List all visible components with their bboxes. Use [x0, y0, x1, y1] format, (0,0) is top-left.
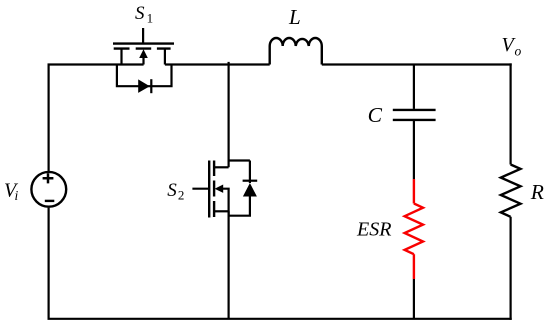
voltage source Vi [31, 172, 66, 207]
gate bar [113, 42, 174, 44]
diode D1 loop (body diode of S1) [117, 65, 172, 87]
minus sign [45, 200, 55, 202]
svg-text:R: R [530, 180, 544, 204]
gate lead [192, 188, 209, 190]
wire rail S1-to-inductor [165, 63, 270, 65]
wire left vertical bottom [47, 208, 49, 319]
svg-text:S: S [135, 3, 145, 24]
wire left vertical top [47, 65, 49, 172]
diode D2 triangle [243, 183, 257, 197]
wire ESR-to-bottom black [413, 279, 415, 319]
svg-text:C: C [368, 103, 383, 127]
drain connection [120, 49, 122, 65]
wire S2 branch lower [228, 211, 230, 318]
channel dashes [213, 161, 215, 218]
resistor ESR (red) [405, 179, 423, 279]
capacitor C plates [393, 110, 436, 120]
diode D2 (body diode of S2) [229, 161, 258, 216]
wire C-to-ESR black [413, 121, 415, 179]
diode D1 cathode bar [150, 79, 152, 93]
body arrow shaft [142, 57, 144, 65]
svg-text:1: 1 [147, 10, 154, 25]
svg-text:i: i [15, 188, 19, 203]
plus sign [43, 173, 54, 183]
body arrow head S2 [215, 185, 224, 193]
body arrow head S1 [139, 49, 148, 58]
wire S2 branch upper [228, 62, 230, 167]
transistor S1 (MOSFET) [113, 28, 174, 65]
svg-text:2: 2 [178, 188, 185, 203]
red lead top [413, 179, 415, 204]
gate bar [208, 161, 210, 218]
wire bottom rail [48, 318, 512, 320]
svg-text:S: S [167, 180, 177, 201]
channel dashes [114, 47, 171, 49]
source connection [214, 210, 229, 212]
red lead bottom [413, 254, 415, 279]
wire right vertical top [510, 63, 512, 164]
wire right vertical bottom [510, 217, 512, 320]
source connection [164, 49, 166, 65]
transistor S2 (MOSFET) [192, 161, 229, 218]
gate lead [142, 28, 144, 43]
svg-text:L: L [288, 5, 301, 29]
resistor R [501, 165, 521, 217]
inductor L [270, 38, 322, 65]
drain connection [214, 166, 229, 168]
svg-text:o: o [515, 44, 522, 59]
body arrow shaft [223, 189, 230, 216]
wire C branch top [413, 65, 415, 109]
red zigzag [405, 204, 423, 255]
cathode bar [243, 180, 258, 182]
diode D1 triangle [138, 79, 150, 93]
svg-text:ESR: ESR [356, 219, 391, 241]
wire top-left rail [48, 63, 144, 65]
wire rail inductor-to-corner [322, 63, 512, 65]
